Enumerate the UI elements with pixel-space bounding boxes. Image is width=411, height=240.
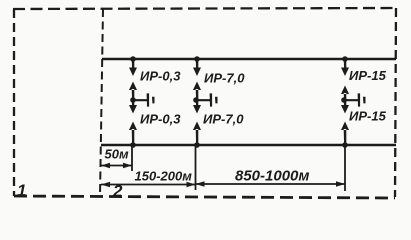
junction dot top C2: [194, 56, 200, 62]
dashed enclosure border right: [395, 8, 396, 197]
arrow down from top line C3: [341, 59, 349, 76]
dimension line 50м: [101, 165, 132, 167]
svg-text:50м: 50м: [105, 147, 129, 162]
arrow up from bottom line C2: [193, 122, 201, 146]
junction dot bottom C2: [194, 142, 200, 148]
svg-text:ИР-0,3: ИР-0,3: [140, 112, 181, 127]
arrow down from top line C2: [193, 59, 201, 76]
dim arrow right 50м: [123, 163, 132, 168]
arrow up to middle C2: [193, 82, 201, 101]
extension line below C3: [344, 146, 346, 191]
arrow up from bottom line C3: [341, 122, 349, 146]
dimension line 850-1000м: [196, 183, 346, 185]
detonator symbol C2: [196, 93, 218, 106]
dim arrow right 150-200м: [187, 182, 196, 187]
dashed boundary line 2 (vertical): [100, 9, 103, 196]
arrow up from bottom line C1: [129, 122, 137, 146]
arrow down from top line C1: [129, 59, 137, 76]
dashed enclosure border left: [13, 9, 15, 196]
junction dot middle C2: [193, 97, 199, 103]
arrow down from middle C2: [193, 100, 201, 114]
junction dot middle C3: [341, 97, 347, 103]
dim arrow right 850-1000м: [336, 181, 345, 186]
junction dot middle C1: [130, 97, 136, 103]
detonator symbol C3: [344, 93, 366, 106]
svg-text:2: 2: [112, 182, 123, 201]
wire: bottom row line: [101, 144, 396, 146]
junction dot top C1: [130, 56, 136, 62]
junction dot bottom C1: [130, 142, 136, 148]
detonator symbol C1: [133, 93, 155, 106]
svg-text:ИР-15: ИР-15: [349, 68, 387, 83]
svg-text:150-200м: 150-200м: [135, 169, 193, 184]
dim arrow left 150-200м: [101, 182, 110, 187]
svg-text:ИР-15: ИР-15: [349, 109, 387, 124]
svg-text:850-1000м: 850-1000м: [235, 168, 310, 185]
dashed enclosure border bottom: [14, 196, 395, 198]
dim arrow left 50м: [101, 163, 110, 168]
svg-text:ИР-0,3: ИР-0,3: [140, 69, 181, 84]
svg-text:1: 1: [17, 181, 26, 200]
junction dot bottom C3: [342, 142, 348, 148]
extension line below C2: [195, 146, 197, 190]
extension line below C1: [131, 146, 133, 171]
arrow down from middle C3: [341, 100, 349, 114]
svg-text:ИР-7,0: ИР-7,0: [204, 71, 245, 86]
dimension line 150-200м: [101, 184, 196, 186]
arrow up to middle C3: [341, 86, 349, 101]
dim arrow left 850-1000м: [196, 181, 205, 186]
dashed enclosure border top: [13, 8, 396, 9]
svg-text:ИР-7,0: ИР-7,0: [203, 112, 244, 127]
junction dot top C3: [342, 56, 348, 62]
arrow up to middle C1: [129, 82, 137, 101]
arrow down from middle C1: [129, 100, 137, 114]
wire: top row line: [102, 58, 396, 60]
